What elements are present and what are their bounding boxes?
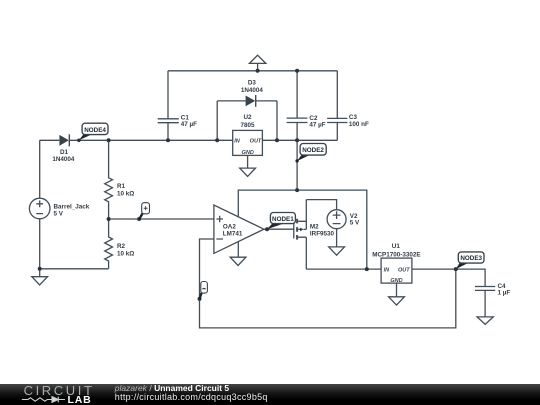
svg-text:IRF9530: IRF9530 <box>310 231 335 238</box>
svg-text:NODE4: NODE4 <box>84 127 106 134</box>
svg-text:1N4004: 1N4004 <box>241 87 264 94</box>
svg-text:GND: GND <box>242 150 254 156</box>
svg-text:OUT: OUT <box>398 267 410 273</box>
svg-text:7805: 7805 <box>240 122 255 129</box>
svg-text:U2: U2 <box>243 114 252 121</box>
svg-text:LM741: LM741 <box>223 230 243 237</box>
svg-text:5 V: 5 V <box>54 211 64 218</box>
svg-text:10 kΩ: 10 kΩ <box>117 250 134 257</box>
svg-text:OUT: OUT <box>250 139 262 145</box>
svg-text:GND: GND <box>390 278 402 284</box>
svg-text:NODE1: NODE1 <box>272 216 294 223</box>
svg-text:10 kΩ: 10 kΩ <box>117 191 134 198</box>
svg-text:D1: D1 <box>60 149 69 156</box>
svg-text:D3: D3 <box>248 80 257 87</box>
svg-text:OA2: OA2 <box>223 223 236 230</box>
svg-text:47 µF: 47 µF <box>309 121 325 128</box>
svg-text:NODE2: NODE2 <box>302 147 324 154</box>
svg-text:NODE3: NODE3 <box>460 255 482 262</box>
svg-text:100 nF: 100 nF <box>349 121 369 128</box>
svg-text:1N4004: 1N4004 <box>52 156 75 163</box>
svg-text:R2: R2 <box>117 243 126 250</box>
svg-text:M2: M2 <box>310 223 319 230</box>
svg-text:47 µF: 47 µF <box>181 121 197 128</box>
svg-text:MCP1700-3302E: MCP1700-3302E <box>372 251 420 258</box>
svg-text:U1: U1 <box>392 243 401 250</box>
svg-text:R1: R1 <box>117 183 126 190</box>
svg-text:1 µF: 1 µF <box>498 289 511 296</box>
svg-text:5 V: 5 V <box>350 219 360 226</box>
